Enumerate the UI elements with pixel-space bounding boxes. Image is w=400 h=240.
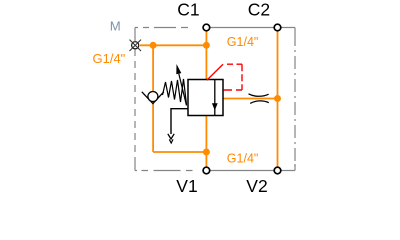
drain line (171, 109, 188, 134)
node junction dot A (M line) (150, 42, 157, 49)
adjustment arrow shaft (179, 74, 187, 106)
check valve ball seat (142, 92, 164, 104)
wire orange M junction horizontal (140, 44, 206, 46)
svg-text:C2: C2 (248, 0, 270, 20)
orifice top curve (249, 94, 269, 96)
node junction dot C (V1 line) (203, 149, 210, 156)
port C1 circle (203, 24, 210, 31)
wire orange C2 down to V2 (277, 32, 279, 168)
wire orange valve outlet down to V1 (205, 116, 207, 168)
relief valve flow arrow line (214, 80, 216, 115)
enclosure border top solid run C1-C2-corner (203, 27, 295, 29)
enclosure border top (dash-dot) (135, 27, 203, 29)
pilot line top (red dashed) (223, 63, 242, 65)
svg-text:V1: V1 (176, 176, 197, 196)
check valve ball (148, 92, 158, 102)
svg-text:M: M (110, 19, 121, 34)
svg-text:G1/4": G1/4" (227, 152, 259, 166)
wire orange check valve branch lower (152, 104, 154, 153)
svg-text:C1: C1 (177, 0, 199, 20)
port V2 circle (274, 167, 281, 174)
enclosure border bottom solid run V1-V2-corner (203, 170, 295, 172)
svg-text:G1/4": G1/4" (93, 51, 126, 66)
enclosure border right (chain line) (294, 28, 296, 34)
port C2 circle (274, 24, 281, 31)
wire orange C1 down to valve inlet (205, 31, 207, 80)
enclosure border bottom (dash-dot) (135, 170, 203, 172)
svg-text:G1/4": G1/4" (227, 35, 259, 49)
pilot line vertical (red dashed) (241, 64, 243, 90)
drain arrow chevron 1 (168, 134, 174, 139)
relief valve body (188, 80, 223, 116)
wire orange valve right side to C2 line (223, 98, 278, 100)
relief valve flow arrowhead (212, 103, 218, 110)
drain arrow chevron 2 (169, 139, 173, 143)
wire orange bottom horizontal to V1 node (153, 151, 206, 153)
measuring port M symbol (132, 42, 139, 49)
orifice bottom curve (250, 101, 269, 104)
wire orange check valve branch upper (152, 45, 154, 91)
pilot line bottom (red) (224, 89, 243, 91)
node junction dot B (C1 line) (203, 42, 210, 49)
svg-text:V2: V2 (246, 176, 267, 196)
enclosure border left (134, 28, 136, 42)
node junction dot D (C2 line) (274, 95, 281, 102)
spring (163, 79, 187, 105)
pilot line diagonal (red) (207, 64, 223, 80)
port V1 circle (203, 167, 210, 174)
adjustment arrowhead (176, 64, 181, 74)
